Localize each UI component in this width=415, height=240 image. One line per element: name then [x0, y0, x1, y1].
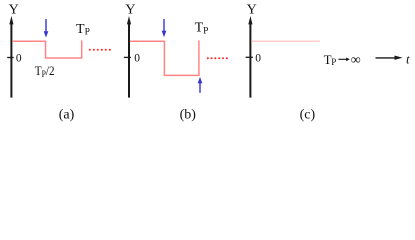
- Y axis arrowhead (c): [248, 16, 252, 24]
- svg-text:(c): (c): [300, 107, 316, 122]
- Y axis arrowhead (a): [9, 16, 13, 24]
- Y axis (a): [10, 22, 12, 98]
- svg-text:(a): (a): [59, 107, 75, 122]
- svg-text:Y: Y: [9, 2, 19, 17]
- Y axis (b): [128, 22, 130, 98]
- blue down arrow (a): [45, 19, 47, 33]
- Y axis arrowhead (b): [127, 16, 131, 24]
- Y axis (c): [249, 22, 251, 98]
- svg-text:t: t: [406, 51, 410, 66]
- zero tick (c): [246, 56, 253, 58]
- svg-text:Y: Y: [247, 2, 257, 17]
- signal trace (a): high, step down at Tp/2, low, step up at Tp: [12, 40, 81, 58]
- constant signal line (c), light pink: [251, 40, 320, 42]
- svg-text:TP: TP: [76, 22, 90, 38]
- svg-text:Y: Y: [125, 2, 135, 17]
- svg-text:0: 0: [134, 52, 140, 64]
- time axis arrow (c): [376, 57, 397, 59]
- svg-text:∞: ∞: [351, 53, 361, 68]
- signal trace (b): high, deep dip, step up at Tp: [130, 40, 199, 75]
- ellipsis dots (b): [207, 57, 228, 59]
- svg-text:TP: TP: [195, 21, 209, 37]
- blue down arrow (b): [163, 19, 165, 32]
- zero tick (a): [7, 57, 14, 59]
- svg-text:0: 0: [16, 52, 22, 64]
- ellipsis dots (a): [89, 49, 111, 51]
- svg-text:P: P: [331, 57, 336, 67]
- zero tick (b): [124, 56, 131, 58]
- blue up arrow (b): [199, 82, 201, 93]
- svg-text:0: 0: [255, 52, 261, 64]
- svg-text:TP/2: TP/2: [35, 63, 55, 79]
- svg-text:(b): (b): [180, 107, 197, 122]
